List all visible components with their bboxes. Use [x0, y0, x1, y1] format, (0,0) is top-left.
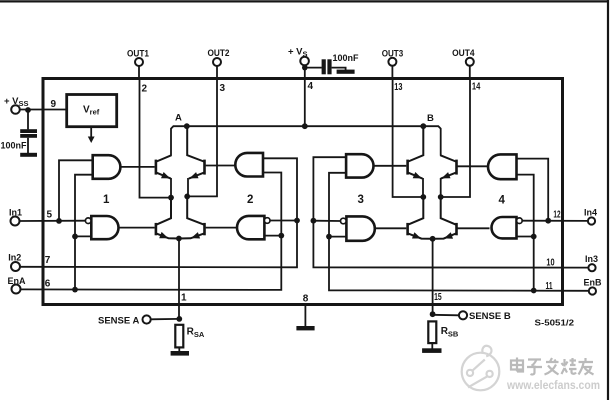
junction dot +VS on rail: [302, 123, 308, 129]
junction dot gate1 lower riser: [72, 234, 78, 240]
Q4 collector to node OUT2: [187, 196, 204, 224]
Q7 emitter with arrow to sense node: [408, 234, 432, 239]
Q8 emitter with arrow to sense node: [433, 234, 456, 239]
svg-text:A: A: [175, 112, 182, 123]
watermark chinese brand glyphs: [511, 358, 594, 375]
capacitor 100nF plate top: [20, 129, 37, 133]
pin In4 terminal circle: [588, 217, 595, 224]
supply rail A-B with collector bends: [171, 126, 441, 155]
wire riser to gate 3b lower input: [329, 236, 346, 238]
capacitor 100nF plate bottom: [20, 134, 37, 138]
svg-text:8: 8: [303, 294, 309, 305]
wire In4 riser up to gate 4 upper input: [517, 159, 549, 221]
svg-text:In4: In4: [584, 208, 597, 218]
AND gate 4 top (mirrored): [488, 154, 517, 179]
svg-text:B: B: [427, 113, 434, 124]
svg-text:1: 1: [103, 194, 110, 206]
svg-text:SENSE B: SENSE B: [469, 311, 511, 322]
wire EnA riser up to gate 1 lower input: [75, 175, 93, 290]
svg-text:3: 3: [220, 83, 226, 94]
AND gate 4 bottom (mirrored): [492, 217, 517, 238]
junction dot node B: [420, 123, 426, 129]
ground bar pin 8: [296, 326, 314, 330]
junction dot In4 riser: [545, 218, 551, 224]
transistor Q2 upper-right base bar: [203, 160, 206, 175]
svg-text:SENSE A: SENSE A: [98, 315, 139, 326]
transistor Q8 lower-right base bar: [455, 223, 458, 235]
pin +VSS terminal circle: [11, 105, 20, 114]
junction dot at +VS: [302, 65, 308, 71]
wire capacitor to ground: [27, 138, 29, 153]
svg-text:4: 4: [308, 81, 314, 92]
wire capacitor to ground: [332, 68, 346, 70]
ground bar below capacitor: [20, 153, 37, 157]
ground bar below RSB: [422, 348, 441, 353]
wire OUT3 vertical into node OUT3: [393, 79, 424, 197]
wire EnB across to gate 3 riser: [329, 173, 588, 291]
ground bar below RSA: [171, 351, 189, 356]
wire EnA to gate2 riser: [20, 173, 281, 290]
junction dot node A: [184, 123, 190, 129]
Q6 emitter with arrow: [441, 173, 456, 179]
transistor Q7 lower-left base bar: [406, 223, 409, 235]
IC package outline box: [43, 79, 563, 305]
wire In1 up to gate 1 upper input: [59, 160, 93, 221]
junction dot sense A node: [176, 236, 182, 242]
wire OUT4 pin to box: [469, 66, 471, 79]
page top border: [0, 0, 609, 2]
wire OUT2 vertical into node OUT2: [187, 79, 217, 196]
wire OUT4 vertical into node OUT4: [441, 79, 470, 197]
svg-text:5: 5: [47, 209, 53, 220]
wire gate1 top output to Q1 base: [120, 166, 154, 168]
svg-text:9: 9: [51, 99, 57, 110]
wire RSA to ground: [178, 347, 180, 352]
svg-text:www.elecfans.com: www.elecfans.com: [506, 380, 600, 392]
transistor Q4 lower-right base bar: [203, 223, 206, 235]
pin +VS terminal circle: [300, 57, 309, 66]
junction dot gate2 riser lower input: [278, 233, 284, 239]
inverter bubble gate 2: [264, 218, 270, 224]
AND gate 2 bottom (mirrored): [237, 216, 264, 239]
pin In1 terminal circle: [11, 217, 20, 226]
junction dot node OUT1: [168, 195, 174, 201]
resistor RSB body: [428, 321, 436, 343]
wire +VS vertical to rail: [304, 65, 306, 126]
junction dot sense A external: [176, 316, 182, 322]
wire +VSS junction to capacitor: [27, 110, 29, 129]
pin In2 terminal circle: [11, 262, 20, 271]
transistor Q6 upper-right base bar: [455, 160, 458, 175]
wire In3 across to gate 3 riser: [313, 157, 587, 267]
pin EnB terminal circle: [589, 287, 596, 294]
Q3 collector to node OUT1: [157, 198, 172, 225]
AND gate 2 top (mirrored): [235, 153, 263, 177]
wire gate4 bottom output to Q8 base: [457, 227, 489, 229]
wire OUT3 pin to box: [391, 66, 393, 79]
wire SENSE A to node: [151, 318, 180, 320]
pin OUT2 terminal circle: [213, 58, 221, 66]
Q5 collector to node B: [408, 126, 423, 161]
svg-text:EnB: EnB: [584, 277, 603, 287]
AND gate 3 top: [346, 154, 373, 177]
wire riser to gate 4b lower input: [517, 236, 534, 238]
junction dot In1: [56, 218, 62, 224]
Q6 emitter vertical to node OUT4: [440, 178, 442, 197]
wire In2 to vertical riser: [20, 158, 297, 267]
junction dot In2 riser to gate2 bubble: [294, 218, 300, 224]
wire gate3 top output to Q5 base: [374, 165, 407, 167]
ground bar at +VS capacitor: [337, 70, 355, 74]
Q8 collector to node OUT4: [441, 197, 456, 225]
svg-text:2: 2: [142, 84, 148, 95]
svg-text:6: 6: [45, 279, 51, 290]
pin In3 terminal circle: [588, 264, 595, 271]
junction dot In3 riser to gate3 bubble: [311, 218, 317, 224]
AND gate 3 bottom: [346, 216, 374, 240]
inverter bubble gate 1: [85, 218, 91, 224]
Q1 emitter with arrow: [157, 173, 171, 179]
pin OUT4 terminal circle: [466, 58, 474, 66]
wire gate3 bottom output to Q7 base: [375, 227, 407, 229]
capacitor 100nF plate left: [322, 59, 326, 74]
junction dot EnB to gate4 riser: [531, 288, 537, 294]
pin EnA terminal circle: [12, 285, 21, 294]
wire EnB riser up to gate 4 lower input: [517, 175, 534, 291]
svg-text:100nF: 100nF: [1, 141, 28, 151]
wire gate1 bottom output to Q3 base: [119, 227, 155, 229]
svg-text:S-5051/2: S-5051/2: [535, 318, 575, 328]
transistor Q1 upper-left base bar: [155, 160, 158, 175]
wire pin 8 to ground: [304, 304, 306, 327]
wire OUT1 vertical into node OUT1: [140, 79, 172, 198]
inverter bubble gate 3: [341, 218, 347, 224]
wire sense A vertical to pin 1: [178, 239, 180, 319]
svg-text:13: 13: [394, 82, 403, 93]
svg-text:15: 15: [434, 292, 442, 303]
wire OUT2 pin to box: [216, 66, 218, 79]
watermark logo circle: [462, 346, 500, 391]
Q1 emitter vertical to node OUT1: [170, 178, 172, 198]
wire +VS to capacitor: [305, 67, 322, 69]
junction dot gate3 riser lower input: [326, 234, 332, 240]
wire gate2 top output to Q2 base: [206, 165, 236, 167]
wire gate2 bottom output to Q4 base: [206, 227, 237, 229]
wire In1 to gate 1 bubble: [19, 220, 85, 222]
svg-text:RSB: RSB: [441, 326, 459, 339]
inverter bubble gate 4: [517, 218, 523, 224]
wire SENSE B to node: [433, 314, 459, 317]
svg-text:2: 2: [247, 194, 253, 206]
Q2 emitter with arrow: [189, 173, 204, 179]
Q2 emitter vertical to node OUT2: [187, 178, 189, 196]
pin OUT3 terminal circle: [388, 58, 396, 66]
junction dot on +VSS wire: [25, 107, 31, 113]
Q3 emitter with arrow to sense node: [157, 234, 179, 239]
AND gate 1 top: [93, 155, 121, 179]
svg-text:In3: In3: [585, 254, 598, 264]
wire riser to gate 2b lower input: [264, 235, 281, 237]
pin OUT1 terminal circle: [135, 58, 143, 66]
Q6 collector: [440, 155, 456, 161]
transistor Q3 lower-left base bar: [155, 223, 158, 235]
svg-text:100nF: 100nF: [333, 53, 360, 63]
capacitor 100nF plate right: [327, 59, 331, 74]
wire In4 to gate 4 bubble: [522, 220, 587, 222]
Q7 collector to node OUT3: [408, 197, 423, 225]
svg-text:Vref: Vref: [83, 105, 100, 117]
voltage reference block Vref: [67, 95, 117, 127]
svg-text:4: 4: [499, 195, 506, 207]
junction dot node OUT4: [438, 194, 444, 200]
wire gate4 top output to Q6 base: [457, 165, 488, 167]
wire RSB to ground: [431, 343, 433, 349]
wire sense B vertical to pin 15: [432, 239, 434, 314]
svg-text:RSA: RSA: [187, 327, 205, 340]
junction dot gate4 riser lower input: [531, 234, 537, 240]
Q5 emitter vertical to node OUT3: [422, 178, 424, 197]
wire OUT1 pin to box: [138, 66, 140, 79]
junction dot node OUT2: [184, 194, 190, 200]
Q4 emitter with arrow to sense node: [179, 234, 204, 239]
svg-text:14: 14: [472, 82, 481, 93]
svg-text:3: 3: [358, 194, 364, 206]
junction dot sense B node: [430, 236, 436, 242]
junction dot EnA to gate1 riser: [72, 287, 78, 293]
wire riser to gate 1b lower input: [75, 235, 91, 237]
pin SENSE A terminal circle: [143, 315, 151, 323]
page right border: [607, 0, 609, 400]
wire +VSS to Vref: [20, 109, 67, 111]
svg-text:7: 7: [45, 255, 51, 266]
svg-text:In2: In2: [8, 253, 21, 263]
transistor Q5 upper-left base bar: [406, 160, 409, 175]
wire gate2 bubble to In2 riser: [270, 220, 297, 222]
AND gate 1 bottom: [91, 216, 118, 239]
resistor RSA body: [175, 325, 183, 348]
svg-text:12: 12: [553, 210, 560, 221]
arrow from Vref down: [90, 127, 92, 138]
svg-text:1: 1: [181, 293, 187, 304]
pin SENSE B terminal circle: [459, 311, 467, 319]
Q1 collector: [157, 155, 172, 161]
junction dot sense B external: [430, 311, 436, 317]
junction dot node OUT3: [420, 194, 426, 200]
Q5 emitter with arrow: [408, 173, 422, 179]
Q2 collector to node A: [187, 126, 204, 161]
wire In3 riser to gate 3 bubble: [313, 220, 340, 222]
